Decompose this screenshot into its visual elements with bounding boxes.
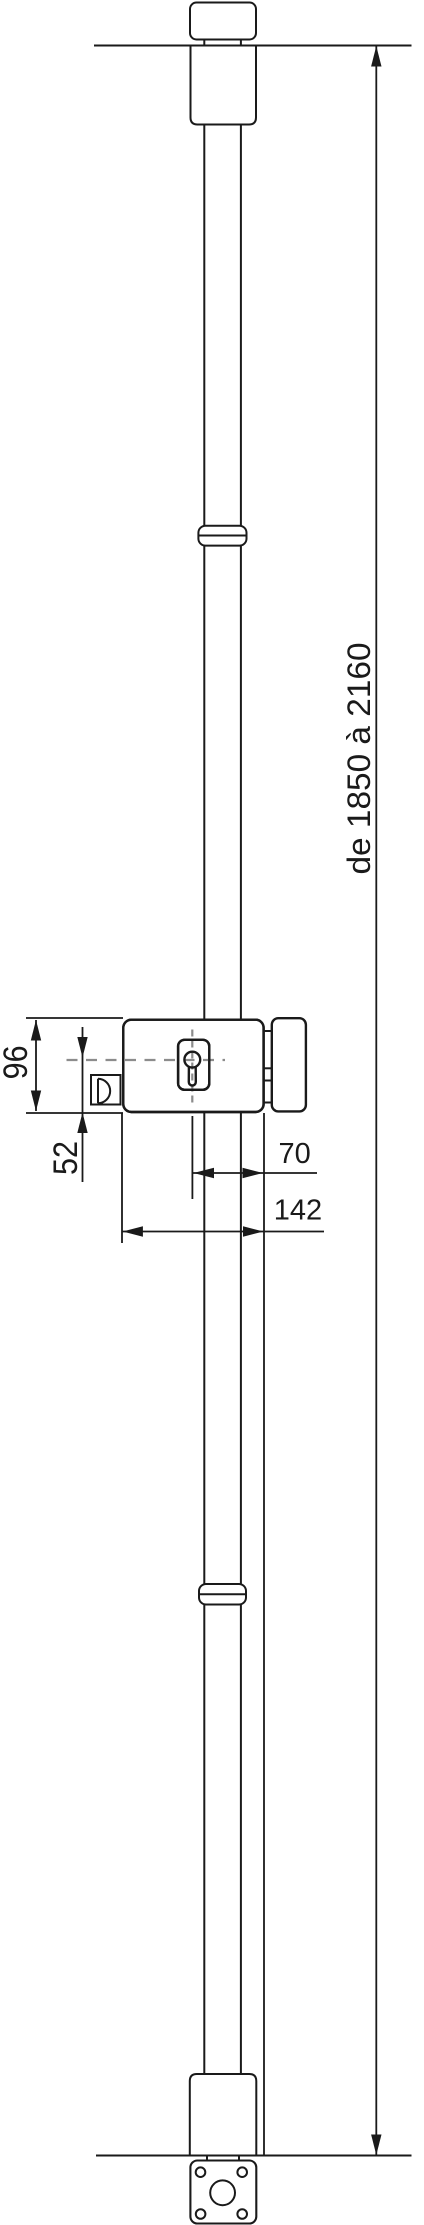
52 up arrowhead <box>77 1113 87 1134</box>
cylinder half-disc <box>98 1079 110 1103</box>
70 dimension line <box>192 1172 317 1174</box>
bottom plate hole top-right <box>237 2167 247 2177</box>
top keeper neck left line <box>203 40 205 47</box>
knob <box>272 1018 306 1111</box>
top keeper <box>190 3 256 40</box>
knob neck tick 3 <box>264 1080 272 1082</box>
lower rod right line <box>240 1113 242 2074</box>
bottom guide <box>190 2074 256 2156</box>
bottom plate <box>190 2161 256 2224</box>
overall dimension top arrowhead <box>371 46 381 67</box>
lock body fill <box>123 1020 263 1112</box>
bottom plate neck right line <box>238 2156 240 2161</box>
bottom plate center hole <box>210 2180 235 2205</box>
96 dimension line <box>35 1020 37 1111</box>
bottom plate hole bottom-right <box>237 2209 247 2219</box>
overall dimension line de 1850 a 2160 <box>375 46 377 2155</box>
142 dimension line <box>122 1231 324 1233</box>
keyhole axis extension line <box>191 1116 193 1199</box>
escutcheon outline <box>178 1040 209 1090</box>
bottom plate hole top-left <box>196 2167 206 2177</box>
overall dimension bottom arrowhead <box>371 2135 381 2156</box>
96 top arrowhead <box>31 1020 41 1041</box>
horizontal centerline <box>67 1059 226 1061</box>
svg-text:52: 52 <box>47 1141 85 1175</box>
knob neck tick 1 <box>264 1030 272 1032</box>
52 measuring line <box>82 1027 84 1182</box>
lower rod left line <box>203 1113 205 2074</box>
svg-text:96: 96 <box>0 1045 35 1079</box>
keyhole slot <box>189 1066 196 1085</box>
body left extension line <box>121 1113 123 1243</box>
knob neck tick 2 <box>264 1067 272 1069</box>
svg-text:70: 70 <box>278 1138 310 1170</box>
lower rod collar <box>199 1584 246 1605</box>
96 bottom arrowhead <box>31 1091 41 1112</box>
52 down arrowhead <box>77 1037 87 1058</box>
escutcheon fill <box>178 1040 209 1090</box>
upper rod right line <box>240 125 242 1020</box>
cylinder square <box>91 1075 121 1105</box>
keyhole circle <box>184 1052 200 1068</box>
lower rod collar mid line <box>199 1593 246 1595</box>
70 right arrowhead <box>243 1168 264 1178</box>
96 top extension line <box>26 1017 123 1019</box>
vertical centerline <box>191 1030 193 1107</box>
upper rod left line <box>203 125 205 1020</box>
upper rod collar <box>198 526 246 546</box>
70 left arrowhead <box>194 1168 215 1178</box>
bottom plate hole bottom-left <box>196 2209 206 2219</box>
142 right arrowhead <box>243 1226 264 1236</box>
142 left arrowhead <box>122 1226 142 1236</box>
door edge line <box>263 1113 265 2155</box>
96 bottom extension line <box>26 1112 123 1114</box>
bottom plate neck left line <box>206 2156 208 2161</box>
svg-text:de 1850 à 2160: de 1850 à 2160 <box>341 643 377 875</box>
knob neck tick 4 <box>264 1102 272 1104</box>
bottom reference line <box>96 2155 412 2157</box>
lock body outline <box>123 1020 263 1112</box>
upper rod collar mid line <box>198 535 246 537</box>
top guide <box>191 46 257 125</box>
top keeper neck right line <box>240 40 242 47</box>
svg-text:142: 142 <box>274 1195 322 1227</box>
top reference line <box>94 45 412 47</box>
